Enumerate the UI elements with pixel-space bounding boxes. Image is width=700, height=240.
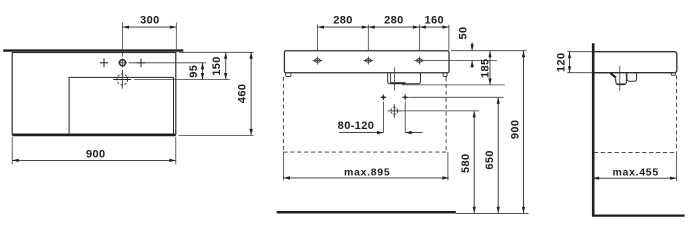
view 2 - tap hole 3	[414, 57, 424, 65]
dimension 650 - dimension line with arrows	[497, 97, 500, 213]
view 2 - extension line tap hole axis to right	[424, 60, 497, 62]
dimension 50 - label	[458, 26, 470, 39]
dimension 300 - extension line right	[175, 23, 177, 52]
dimension 300 - label	[140, 15, 160, 27]
svg-text:280: 280	[333, 15, 353, 27]
view 2 - right wall-anchor hole cross	[402, 95, 408, 101]
view 1 - vertical centerline through tap hole	[122, 23, 124, 74]
svg-text:max.455: max.455	[613, 167, 659, 179]
dimension 900 plan - label	[86, 149, 106, 161]
view 3 - basin profile outline	[595, 52, 677, 73]
dimension 900 height - label	[509, 120, 521, 140]
dimension max.895 - extension lines	[283, 152, 448, 181]
view 3 - dashed clearance box	[594, 75, 677, 152]
dimension 160 - label	[425, 15, 445, 27]
view 1 - inner bowl rectangle	[69, 77, 173, 134]
view 2 - dashed cabinet clearance box	[283, 77, 446, 152]
view 1 - extension line tap hole axis to right	[129, 62, 206, 64]
dimension 280 second - label	[384, 15, 404, 27]
view 3 - right foot	[671, 73, 675, 76]
view 1 - drain circle with crosshair	[113, 71, 131, 89]
svg-text:650: 650	[484, 150, 496, 170]
dimension 900 plan - dimension line with arrows	[12, 159, 176, 162]
svg-text:95: 95	[188, 65, 200, 78]
view 3 - drain centerline	[619, 66, 621, 91]
view 1 - tap hole circle	[118, 58, 127, 67]
dimension max.455 - dimension line with arrows	[593, 177, 677, 180]
svg-text:900: 900	[86, 149, 106, 161]
dimension 95 - label	[188, 65, 200, 78]
chain dimension - dimension line with arrows	[318, 26, 449, 29]
view 1 - left alt tap hole cross	[100, 59, 109, 68]
view 2 - left foot	[286, 73, 291, 77]
svg-text:max.895: max.895	[344, 166, 390, 178]
view 2 front view - basin slab outline	[284, 51, 449, 73]
svg-text:185: 185	[480, 58, 492, 78]
view 1 - extension line bottom edge to right	[179, 134, 254, 136]
dimension 900 height - dimension line with arrows	[522, 51, 525, 214]
dimension 95 - dimension line with arrows	[201, 63, 204, 80]
dimension 185 - dimension line with arrows	[488, 51, 491, 85]
dimension 460 - dimension line with arrows	[249, 52, 252, 135]
view 1 - extension line drain axis to right	[134, 79, 230, 81]
view 1 - right alt tap hole cross	[137, 59, 146, 68]
view 3 - floor line (thick)	[592, 214, 685, 216]
dimension 80-120 - extension lines	[383, 102, 405, 133]
view 2 - tap hole 2	[363, 57, 373, 65]
view 2 - extension line bowl bottom to right	[402, 84, 505, 86]
chain dimension 280/280/160 - extension lines	[318, 25, 449, 51]
view 2 - floor line (thick)	[277, 211, 456, 214]
view 1 plan view - wall line (thick, back edge)	[3, 49, 183, 51]
view 2 - tap hole 1	[313, 57, 323, 65]
dimension max.455 - label	[613, 167, 659, 179]
view 3 side view - wall line (thick)	[592, 43, 595, 216]
svg-text:160: 160	[425, 15, 445, 27]
view 1 - extension line top edge to right	[179, 51, 254, 53]
dimension 80-120 - dimension line with outside arrows	[339, 131, 423, 134]
dimension max.895 - dimension line with arrows	[283, 176, 449, 179]
view 2 - extension line slab top to right	[451, 50, 527, 52]
dimension 300 - dimension line with arrows	[123, 26, 177, 29]
dimension 150 - dimension line with arrows	[224, 52, 227, 79]
dimension 580 - label	[460, 153, 472, 173]
view 2 - extension line outlet axis to right	[400, 110, 479, 112]
view 2 - right foot	[443, 73, 447, 77]
dimension max.895 - label	[344, 166, 390, 178]
view 2 - waste outlet circle with crosshair	[388, 104, 401, 117]
dimension 280 first - label	[333, 15, 353, 27]
dimension 185 - label	[480, 58, 492, 78]
dimension 900 plan - extension lines	[12, 137, 176, 165]
view 3 - siphon boss profile	[627, 73, 637, 81]
dimension 50 - dimension leaders with outside arrows	[471, 42, 474, 68]
dimension 460 - label	[237, 84, 249, 104]
dimension 650 - label	[484, 150, 496, 170]
svg-text:580: 580	[460, 153, 472, 173]
view 2 - bowl outline below slab	[388, 73, 421, 84]
dimension 120 - label	[555, 53, 567, 73]
dimension 580 - dimension line with arrows	[473, 111, 476, 213]
view 2 - floor extension line thin	[456, 212, 529, 214]
svg-text:120: 120	[555, 53, 567, 73]
svg-text:280: 280	[384, 15, 404, 27]
view 2 - extension line anchor axis to right	[408, 96, 503, 98]
dimension 120 - dimension line with arrows	[568, 52, 571, 73]
view 3 - bowl profile	[611, 73, 627, 85]
view 2 - drain vertical centerline	[393, 68, 395, 91]
svg-text:150: 150	[211, 56, 223, 76]
svg-text:50: 50	[458, 26, 470, 39]
dimension 120 - extension lines	[567, 52, 592, 73]
view 1 - basin outer rim rectangle	[12, 53, 176, 135]
dimension max.455 - extension line right	[676, 153, 678, 181]
view 1 - front edge thick band	[12, 134, 176, 136]
dimension 150 - label	[211, 56, 223, 76]
dimension 80-120 - label	[338, 120, 375, 132]
svg-text:900: 900	[509, 120, 521, 140]
svg-text:460: 460	[237, 84, 249, 104]
svg-text:80-120: 80-120	[338, 120, 375, 132]
view 2 - left wall-anchor hole cross	[381, 95, 387, 101]
svg-text:300: 300	[140, 15, 160, 27]
